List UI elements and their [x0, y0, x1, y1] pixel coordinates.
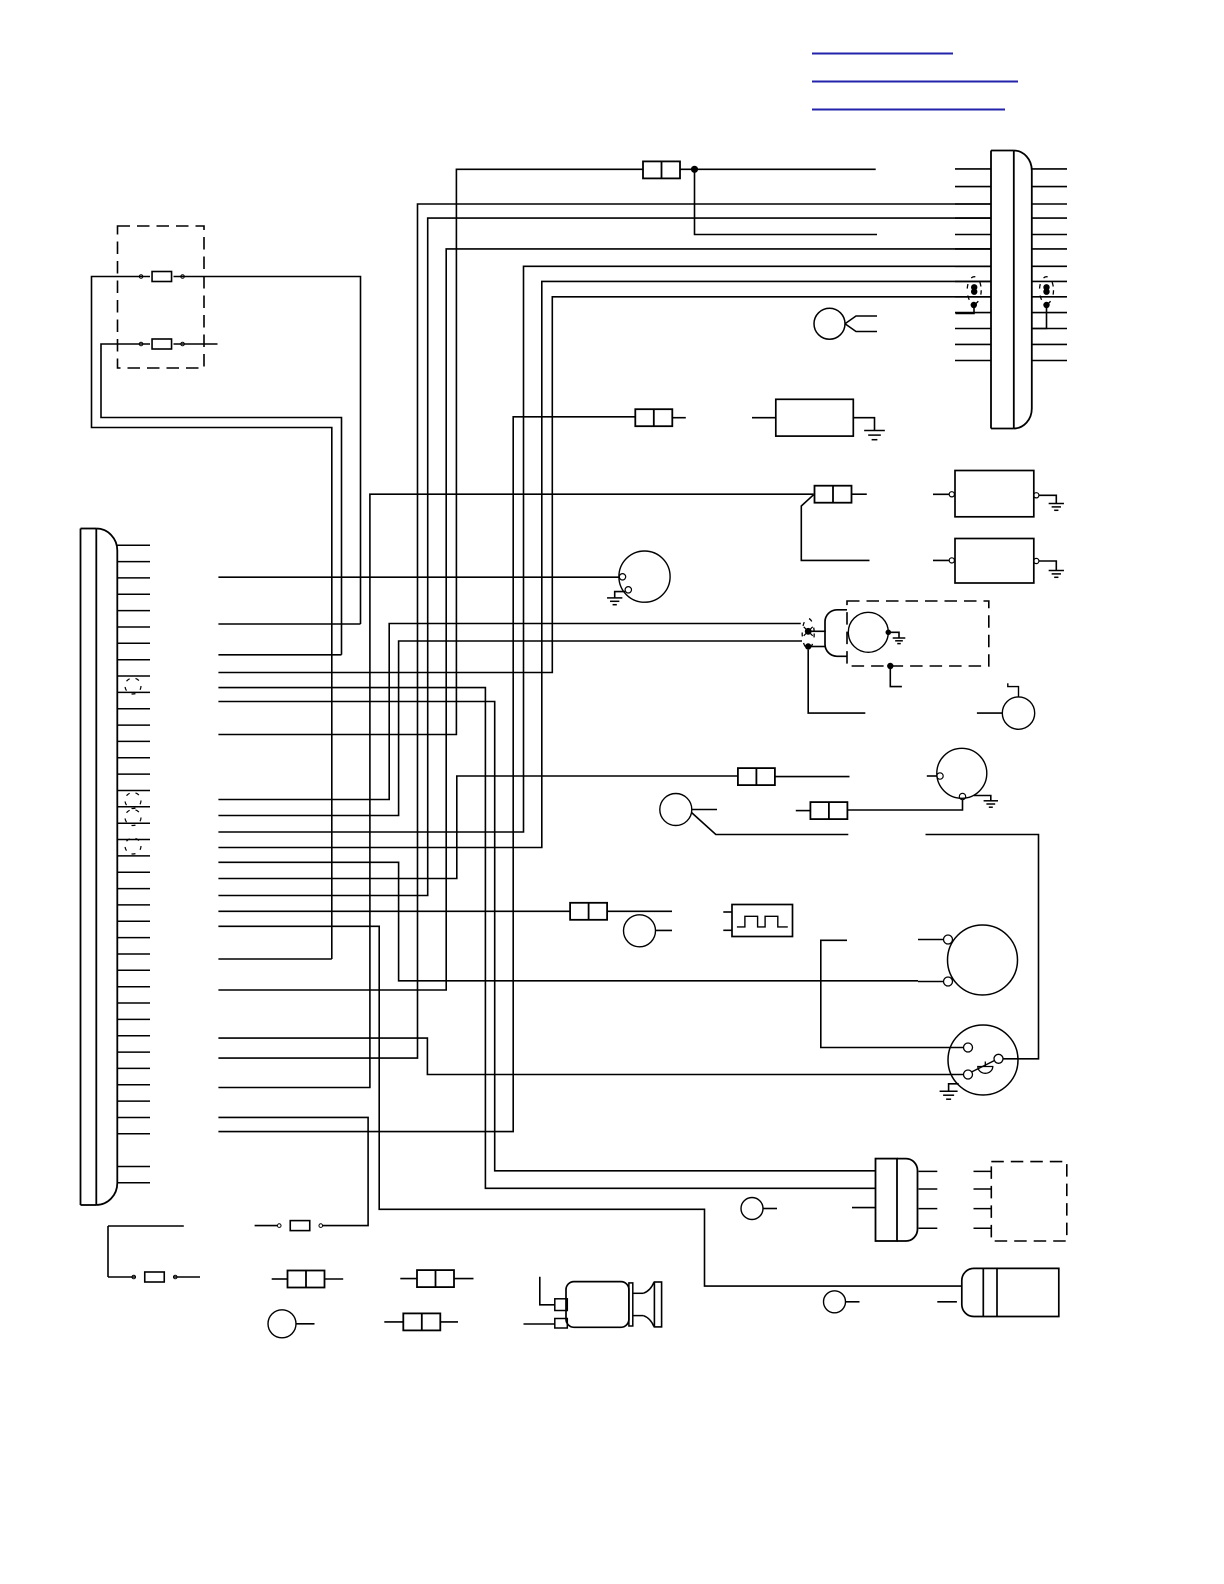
sender S1 circle: [937, 748, 987, 798]
wire to pulse box upper: [723, 911, 732, 913]
horn H1 body: [555, 1282, 662, 1328]
wire to fuse F10: [255, 1225, 277, 1227]
ground for gauge: [607, 598, 622, 605]
wire under C1 lower: [108, 1276, 136, 1278]
wire pin799 up V389 to solenoid upper: [218, 624, 800, 800]
battery BAT: [962, 1268, 1059, 1316]
wire twist to solenoid coil lower: [811, 646, 825, 648]
fuse F9: [132, 1272, 177, 1282]
wire motor to ground: [891, 632, 899, 638]
wire into B1: [933, 493, 949, 495]
wire pin655 to V341.5: [218, 654, 341, 656]
S1 left terminal: [937, 773, 943, 779]
fuse F10: [277, 1221, 322, 1231]
lamp L1 with fork terminals: [814, 308, 877, 339]
SW1 terminal B: [964, 1070, 973, 1079]
dashed box C4 left pin stubs: [974, 1171, 992, 1228]
wire y266 to C2: [218, 266, 991, 832]
wire Z from stub down to switch: [821, 940, 964, 1047]
wire under C1 upper: [108, 1225, 184, 1227]
wire F2 left to V101: [101, 344, 342, 655]
motor M1: [948, 925, 1018, 995]
wire to horn tab2: [524, 1323, 555, 1325]
wire pin910 to fuse F8: [218, 910, 570, 912]
B2 right terminal: [1034, 558, 1039, 563]
wire F11 right stub: [454, 1278, 474, 1280]
dashed box C4 bottom-right: [991, 1162, 1067, 1241]
gauge lower terminal: [625, 587, 631, 593]
lamp L4: [741, 1198, 763, 1220]
connector C2 left pin stubs: [955, 169, 991, 361]
twisted-pair marker left of C2: [956, 277, 982, 314]
solenoid coil pill: [825, 610, 847, 657]
branch wire from dot down to y234: [695, 169, 878, 234]
wire pin1038 jog to switch terminal: [218, 1038, 963, 1074]
dot on dashed box bottom: [887, 663, 893, 669]
wire F5 right stub: [851, 493, 867, 495]
wire from twist lower dot down-right: [808, 650, 865, 713]
wire y204 to C2: [218, 204, 991, 1058]
relay box K1: [776, 399, 854, 436]
fuse F13: [288, 1271, 325, 1288]
connector C3 right pin stubs: [919, 1171, 938, 1228]
gauge G1: [619, 551, 670, 602]
wire into battery lower: [937, 1301, 957, 1303]
wire pin577 to gauge: [218, 576, 619, 578]
wire to pulse box lower: [723, 929, 732, 931]
lamp L3: [624, 915, 656, 947]
wire under C1 vertical: [107, 1226, 109, 1277]
wire pin623 to V360.5: [218, 623, 360, 625]
connector C2 body: [991, 151, 1032, 429]
wire into M1 lower terminal: [918, 981, 944, 983]
solenoid motor circle: [848, 612, 888, 652]
ignition switch SW1: [948, 1025, 1018, 1095]
wire pin814 up V398 to solenoid lower: [218, 641, 802, 816]
wire y297 to C2: [218, 297, 991, 673]
wire pin685 down V485 to connector C3: [218, 688, 875, 1189]
wire L2 right stub: [692, 809, 717, 811]
SW1 lever: [972, 1061, 995, 1073]
wire hook to horn tab1: [540, 1277, 555, 1305]
wire stub into C3 pin3: [852, 1207, 876, 1209]
wire F1 right to V360.5: [174, 277, 361, 625]
fuse F4: [635, 409, 672, 426]
connector C3 body: [876, 1159, 918, 1241]
B1 left terminal: [949, 492, 954, 497]
wire F7 left stub: [796, 810, 811, 812]
wire y281 to C2: [218, 281, 991, 847]
junction dot after F3: [691, 166, 698, 173]
wire F2 right stub: [174, 343, 218, 345]
wire S1 bottom down-left to fuse F7: [847, 800, 963, 810]
fuse F6: [738, 768, 775, 785]
twisted-pair markers on C1 pins: [125, 678, 141, 854]
wire y834 to ignition switch loop: [926, 835, 1039, 1059]
wire y249 to C2: [218, 249, 991, 990]
SW1 terminal C: [994, 1054, 1003, 1063]
lamp L5: [824, 1291, 846, 1313]
wire F3 to C2 row1: [680, 168, 876, 170]
wire F12 right stub: [440, 1321, 458, 1323]
S1 bottom terminal: [959, 793, 965, 799]
wire pin957 left part: [218, 958, 331, 960]
wire F8 right: [607, 910, 672, 912]
M1 lower terminal: [944, 977, 953, 986]
fuse F2 in dashed box: [139, 339, 184, 349]
wire F4 right stub: [672, 417, 686, 419]
fuse F8: [570, 903, 607, 920]
connector C1 body: [81, 529, 118, 1206]
wire L3 right stub: [656, 929, 673, 931]
fuse F12: [403, 1313, 440, 1330]
dashed box around solenoid: [847, 601, 989, 666]
wire F12 left stub: [384, 1321, 403, 1323]
hyperlink underline 2: [812, 81, 1018, 83]
B1 right terminal: [1034, 493, 1039, 498]
wire pin861 down V398b to motor M1: [218, 862, 918, 981]
module box B1: [955, 471, 1034, 517]
lamp L7 with hook: [1002, 683, 1034, 729]
fuse F5: [815, 486, 852, 503]
SW1 contact cup: [978, 1062, 993, 1074]
B2 left terminal: [949, 558, 954, 563]
wire pin926 down V379 toward C3: [218, 926, 961, 1286]
wire pin703 down V494 to connector C3: [218, 702, 875, 1171]
wire F1 left to V91.5: [92, 277, 332, 960]
ground for solenoid motor: [893, 638, 906, 644]
wire F6 right stub: [775, 776, 850, 778]
module box B2: [955, 539, 1034, 584]
diagonal jog at F5 left: [801, 495, 869, 561]
lamp L6: [268, 1310, 296, 1338]
wire F11 left stub: [400, 1278, 417, 1280]
ground for SW1: [940, 1091, 958, 1099]
wire L2 diagonal to y834: [692, 813, 849, 835]
fuse F3 top: [643, 161, 680, 178]
ground for S1: [984, 801, 998, 807]
wire twist to solenoid coil upper: [811, 630, 825, 632]
dot at motor right: [886, 630, 892, 636]
wire B1 to ground: [1039, 495, 1056, 503]
SW1 terminal A: [964, 1043, 973, 1052]
wire pin1133 up V513 to fuse F4: [218, 417, 635, 1132]
M1 upper terminal: [944, 935, 953, 944]
wire into L7: [977, 712, 1002, 714]
wire stub into S1: [927, 775, 937, 777]
wire SW1 to ground: [949, 1084, 959, 1091]
fuse F11: [417, 1270, 454, 1287]
connector C1 pin stubs: [118, 545, 151, 1183]
ground for B2: [1049, 571, 1064, 578]
wire L4 right stub: [763, 1208, 777, 1210]
ground for K1: [864, 431, 885, 440]
wire L5 right stub: [846, 1301, 860, 1303]
connector C2 right pin stubs: [1032, 169, 1067, 361]
wire F9 right stub: [173, 1276, 200, 1278]
twist marker at solenoid: [802, 619, 814, 650]
wire F10 right up V368 to pin1117: [218, 1117, 368, 1225]
hyperlink underline 3: [812, 109, 1005, 111]
wire L6 right stub: [296, 1323, 315, 1325]
wire B2 to ground: [1039, 561, 1056, 571]
gauge left terminal: [619, 574, 625, 580]
wire pin1090 up V370 to fuse F5: [218, 494, 813, 1087]
fuse F7: [810, 802, 847, 819]
wire y218 to C2: [218, 218, 991, 895]
wire from box dot down-right step: [890, 666, 902, 687]
wire S1 to ground: [974, 796, 991, 801]
lamp L2: [660, 794, 692, 826]
wire into B2: [933, 559, 949, 561]
wire pin736 up V456 to F3: [218, 169, 643, 734]
wire gauge to ground: [615, 592, 626, 598]
fuse F1 in dashed box: [139, 272, 184, 282]
twisted-pair marker right of C2: [1032, 277, 1054, 329]
wire stub M1 upper: [918, 939, 944, 941]
wire K1 to ground: [853, 418, 874, 431]
wire pin875 up V456b to fuse F6: [218, 776, 738, 879]
ground for B1: [1049, 504, 1064, 511]
wire into F13: [272, 1278, 288, 1280]
dashed box (fuse holder) top-left: [118, 226, 205, 368]
wire into K1: [752, 417, 776, 419]
hyperlink underline 1: [812, 53, 953, 55]
pulse generator box: [732, 905, 793, 937]
wire F13 right stub: [325, 1278, 344, 1280]
